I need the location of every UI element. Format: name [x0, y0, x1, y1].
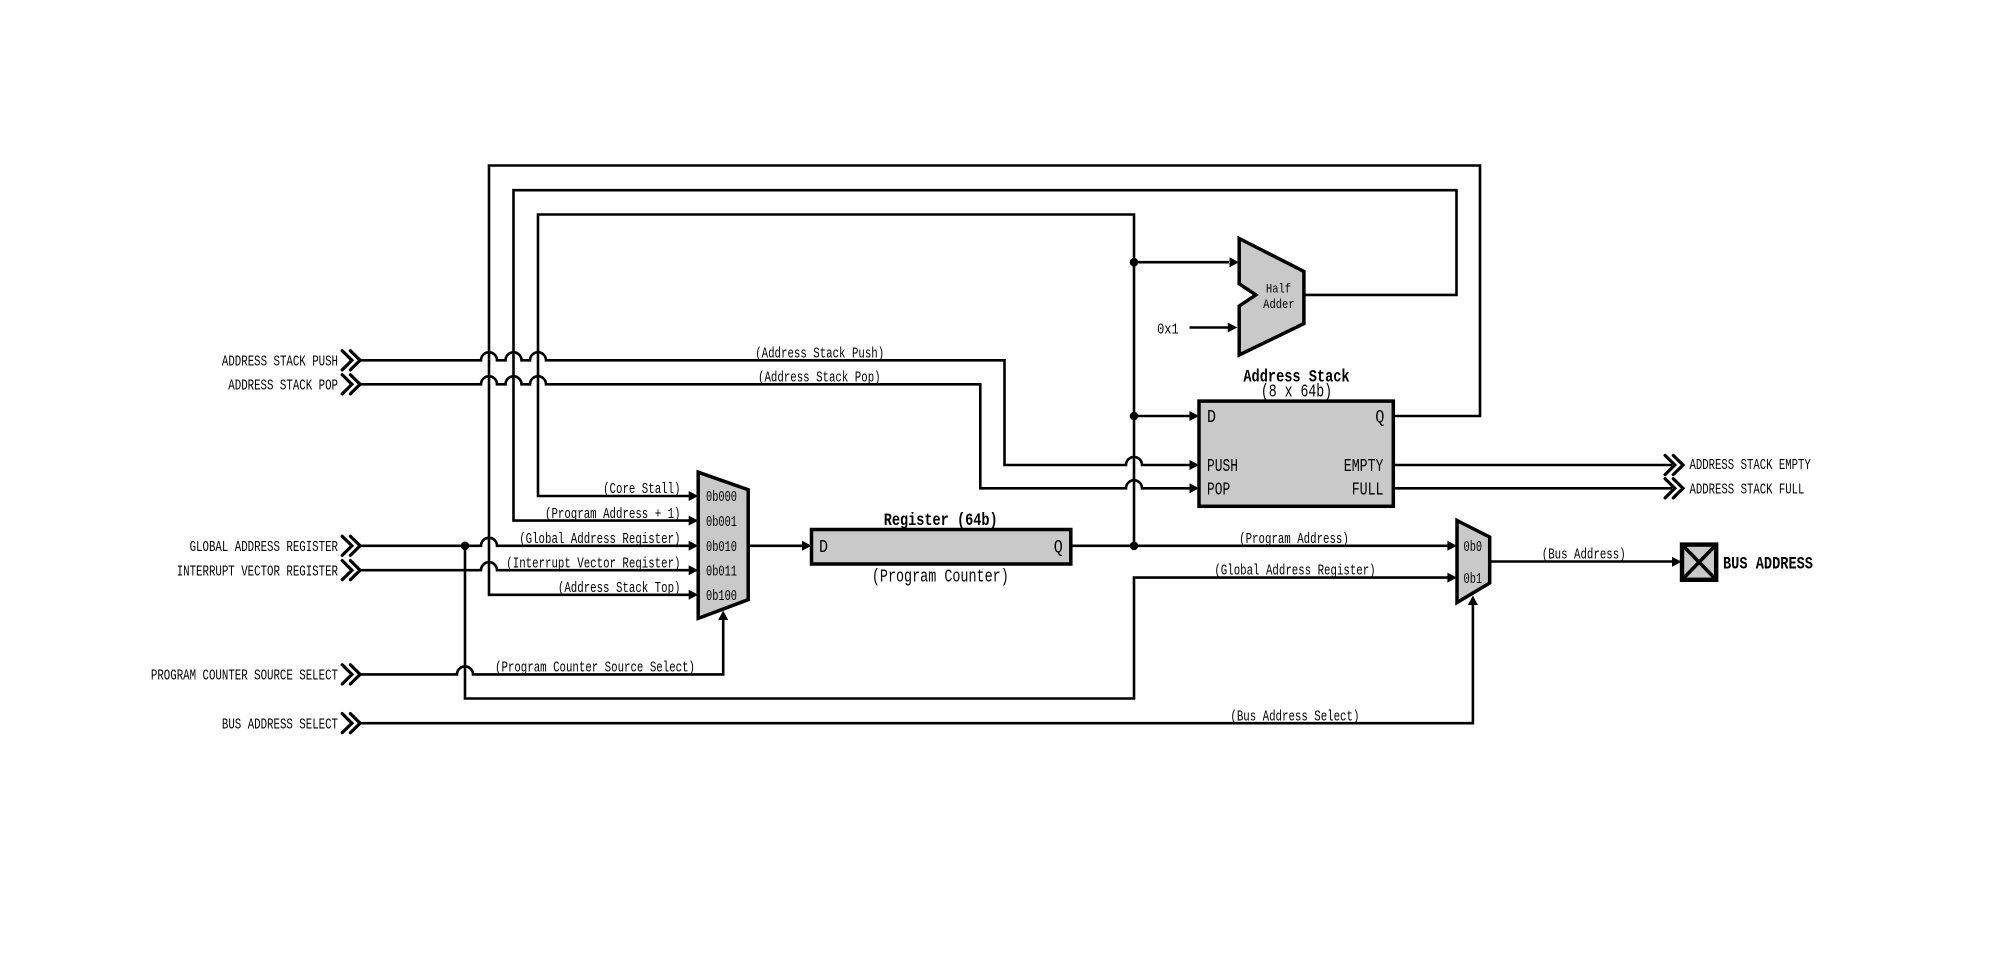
output chevron: address stack full [1665, 479, 1683, 498]
arrowhead: mux2 select [1468, 596, 1478, 606]
arrowhead: stack pop [1190, 483, 1200, 493]
wire: address stack push input [360, 352, 1190, 465]
arrowhead: mux1 0b010 [689, 541, 699, 551]
arrowhead: mux1 0b000 [689, 491, 699, 501]
wire: loop C program address feedback to mux 0b000 (core stall) [538, 215, 1134, 546]
svg-text:0b010: 0b010 [706, 540, 737, 556]
wire: half adder top input from program address [1134, 261, 1229, 264]
arrowhead: half adder 0x1 [1228, 323, 1238, 333]
svg-text:GLOBAL ADDRESS REGISTER: GLOBAL ADDRESS REGISTER [190, 539, 338, 556]
svg-text:Q: Q [1054, 537, 1063, 558]
input chevron: global address register [342, 536, 360, 555]
svg-text:(Bus Address Select): (Bus Address Select) [1230, 708, 1359, 725]
svg-text:(Bus Address): (Bus Address) [1542, 546, 1626, 563]
svg-text:ADDRESS STACK FULL: ADDRESS STACK FULL [1690, 481, 1805, 498]
svg-text:(Global Address Register): (Global Address Register) [1214, 563, 1375, 580]
svg-text:Half: Half [1266, 282, 1291, 297]
svg-text:FULL: FULL [1352, 480, 1384, 501]
wire: program counter source select input to mux1 select [360, 620, 723, 674]
wire: interrupt vector register input to mux 0b011 [360, 562, 690, 570]
wire: address stack pop input [360, 376, 1190, 488]
junction: global address register branch node [461, 542, 470, 551]
svg-text:(Program Counter): (Program Counter) [872, 566, 1009, 587]
svg-text:POP: POP [1207, 480, 1230, 501]
mux U1 program counter source mux [698, 472, 748, 618]
wire: register Q program address to mux2 0b0 [1071, 544, 1449, 547]
svg-text:(Address Stack Pop): (Address Stack Pop) [758, 370, 881, 387]
arrowhead: mux1 0b100 [689, 590, 699, 600]
arrowhead: bus address box [1672, 557, 1682, 567]
output chevron: address stack empty [1665, 455, 1683, 474]
wire: address stack D input [1134, 415, 1190, 418]
svg-text:Register (64b): Register (64b) [884, 511, 998, 531]
junction: register Q feedback node [1130, 542, 1139, 551]
junction: program address to stack D [1130, 412, 1139, 421]
arrowhead: mux1 select [718, 611, 728, 621]
svg-text:ADDRESS STACK PUSH: ADDRESS STACK PUSH [222, 354, 338, 371]
input chevron: interrupt vector register [342, 561, 360, 580]
input chevron: address stack push [342, 351, 360, 370]
svg-text:Adder: Adder [1263, 297, 1295, 312]
svg-text:D: D [819, 537, 828, 558]
wire: loop B half adder output feedback to mux 0b001 [514, 190, 1457, 520]
arrowhead: mux2 0b0 [1447, 541, 1457, 551]
svg-text:PROGRAM COUNTER SOURCE SELECT: PROGRAM COUNTER SOURCE SELECT [151, 668, 338, 685]
svg-text:(Global Address Register): (Global Address Register) [519, 531, 680, 548]
arrowhead: mux1 0b001 [689, 516, 699, 526]
svg-text:(Address Stack Push): (Address Stack Push) [755, 346, 884, 363]
bus address terminal box [1682, 545, 1716, 580]
register (64b) program counter [812, 530, 1071, 565]
wire: bus address select input to mux2 select [360, 605, 1473, 723]
svg-text:(Program Address): (Program Address) [1239, 531, 1349, 548]
svg-text:0b011: 0b011 [706, 564, 737, 580]
svg-text:Q: Q [1375, 407, 1384, 428]
svg-text:D: D [1207, 407, 1216, 428]
input chevron: bus address select [342, 714, 360, 733]
svg-text:BUS ADDRESS SELECT: BUS ADDRESS SELECT [222, 716, 338, 733]
wire: global address register branch to mux2 0b1 [465, 546, 1449, 699]
wire: address stack full output [1393, 487, 1672, 490]
svg-text:0b001: 0b001 [706, 515, 737, 531]
svg-text:(Program Address + 1): (Program Address + 1) [545, 506, 681, 523]
arrowhead: mux2 0b1 [1447, 573, 1457, 583]
address stack (8 x 64b) [1199, 401, 1393, 506]
svg-text:ADDRESS STACK POP: ADDRESS STACK POP [228, 378, 338, 395]
svg-text:0b1: 0b1 [1464, 572, 1483, 588]
svg-text:(Interrupt Vector Register): (Interrupt Vector Register) [506, 555, 680, 572]
svg-text:BUS ADDRESS: BUS ADDRESS [1723, 555, 1813, 575]
svg-text:ADDRESS STACK EMPTY: ADDRESS STACK EMPTY [1690, 457, 1811, 474]
wire: mux2 output bus address [1490, 560, 1674, 563]
svg-text:INTERRUPT VECTOR REGISTER: INTERRUPT VECTOR REGISTER [177, 563, 338, 580]
svg-text:0b000: 0b000 [706, 490, 737, 506]
wire: loop A address stack Q feedback to mux 0b100 [489, 166, 1480, 595]
half adder U3 [1239, 239, 1304, 356]
svg-text:0b0: 0b0 [1464, 540, 1483, 556]
svg-text:0b100: 0b100 [706, 589, 737, 605]
arrowhead: stack D [1190, 411, 1200, 421]
svg-text:(8 x 64b): (8 x 64b) [1261, 382, 1332, 403]
arrowhead: mux1 0b011 [689, 565, 699, 575]
wire: address stack empty output [1393, 464, 1672, 467]
arrowhead: half adder top [1230, 257, 1240, 267]
wire: half adder 0x1 constant input [1190, 326, 1230, 329]
wire: global address register input to mux 0b010 [360, 538, 690, 546]
wire: mux1 output to register D [748, 544, 802, 547]
input chevron: address stack pop [342, 375, 360, 394]
svg-text:(Address Stack Top): (Address Stack Top) [558, 580, 681, 597]
mux U2 bus address mux [1457, 521, 1490, 603]
input chevron: program counter source select [342, 665, 360, 684]
svg-text:PUSH: PUSH [1207, 456, 1238, 477]
svg-text:EMPTY: EMPTY [1344, 456, 1384, 477]
svg-text:(Core Stall): (Core Stall) [603, 481, 680, 498]
svg-text:(Program Counter Source Select: (Program Counter Source Select) [495, 660, 695, 677]
svg-text:0x1: 0x1 [1157, 321, 1179, 338]
bus address terminal X [1682, 545, 1716, 580]
arrowhead: stack push [1190, 460, 1200, 470]
arrowhead: register D [802, 541, 812, 551]
junction: program address to half adder [1130, 258, 1139, 267]
